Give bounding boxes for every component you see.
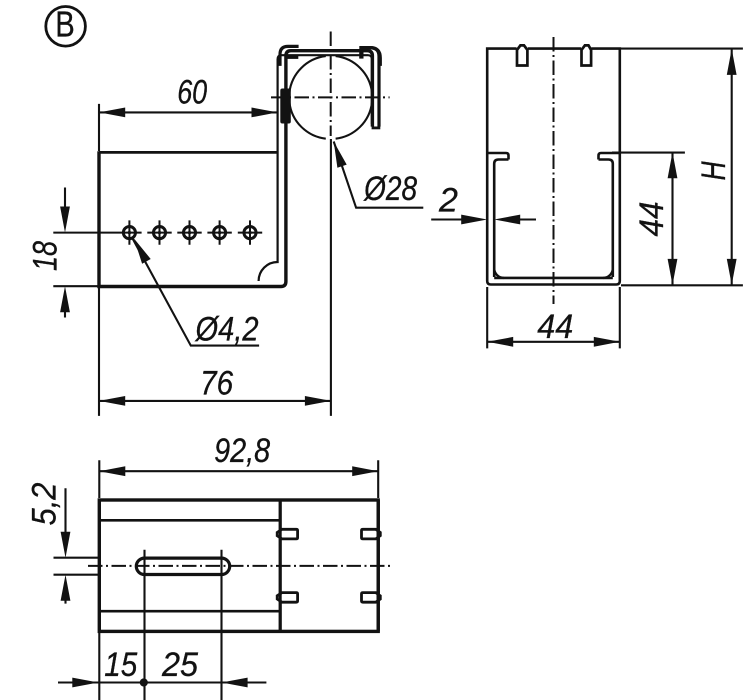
hook outer leaf left bbox=[280, 46, 299, 66]
svg-text:2: 2 bbox=[438, 182, 458, 220]
lip right outer bbox=[599, 153, 620, 160]
svg-text:76: 76 bbox=[200, 365, 233, 403]
svg-text:Ø4,2: Ø4,2 bbox=[195, 311, 259, 349]
right edge overdraw bbox=[377, 500, 380, 631]
plate top edge bbox=[99, 151, 278, 154]
svg-text:92,8: 92,8 bbox=[214, 432, 270, 470]
svg-text:5,2: 5,2 bbox=[25, 482, 63, 525]
hook outer leaf right bbox=[359, 48, 379, 127]
centerline view2 bbox=[553, 37, 555, 304]
svg-text:44: 44 bbox=[633, 202, 671, 237]
extension below tube center bbox=[330, 139, 332, 416]
tab lower-right bbox=[362, 593, 381, 603]
svg-text:15: 15 bbox=[104, 646, 137, 684]
top notch tab 1 bbox=[517, 45, 527, 65]
centerline horizontal tube bbox=[271, 96, 390, 98]
svg-text:18: 18 bbox=[26, 241, 64, 271]
clip bracket outline: plate + riser + hook top (thick) bbox=[99, 51, 372, 287]
tab upper-right bbox=[362, 529, 381, 539]
dim 44 bottom bbox=[487, 287, 620, 348]
leader D4,2 bbox=[132, 237, 259, 346]
svg-text:25: 25 bbox=[161, 646, 198, 684]
extension below rect left edge bbox=[98, 631, 100, 700]
spring tab mid-left bbox=[280, 89, 291, 124]
dim 15 and 25 bbox=[58, 681, 266, 683]
bottom view outer rectangle bbox=[99, 500, 378, 631]
inner line upper bbox=[99, 519, 280, 522]
bend fillet right bbox=[603, 268, 613, 278]
channel outer rectangle bbox=[487, 49, 620, 285]
channel inner bottom bbox=[494, 277, 613, 280]
dim H bbox=[620, 49, 743, 286]
dim 44 vertical bbox=[612, 152, 685, 285]
centerline vertical tube bbox=[330, 32, 332, 137]
svg-text:44: 44 bbox=[537, 308, 573, 346]
tab upper-left bbox=[277, 529, 297, 539]
rail thin profile bbox=[259, 55, 372, 281]
hole crosshairs bbox=[53, 220, 262, 244]
svg-text:H: H bbox=[695, 161, 733, 180]
holes D4.2 bbox=[123, 227, 256, 239]
tube circle D28 bbox=[289, 56, 372, 139]
svg-text:Ø28: Ø28 bbox=[363, 170, 417, 208]
slot obround bbox=[136, 558, 229, 574]
dim 92,8 bbox=[99, 460, 378, 498]
hole center dots bbox=[127, 230, 253, 235]
svg-text:60: 60 bbox=[177, 73, 207, 111]
divider overdraw bbox=[279, 500, 282, 631]
tab lower-left bbox=[277, 593, 297, 603]
hook tip cap bbox=[372, 127, 381, 130]
tab small left bbox=[287, 55, 298, 59]
dim 60 bbox=[99, 104, 278, 151]
top notch tab 2 bbox=[582, 45, 592, 65]
lip left inner + left wall bbox=[494, 160, 508, 278]
dim 5,2 bbox=[54, 488, 99, 603]
inner line lower bbox=[99, 610, 280, 613]
tab small right bbox=[359, 51, 363, 59]
dim 2 bbox=[431, 218, 536, 220]
hook outer leaf right thick part bbox=[362, 48, 380, 66]
lip right inner + right wall bbox=[599, 160, 613, 278]
slot extension verticals bbox=[145, 550, 222, 700]
lip left outer bbox=[487, 153, 508, 160]
bend fillet left bbox=[494, 268, 504, 278]
dim 18 bbox=[53, 188, 98, 318]
dim termination dot bbox=[140, 678, 148, 686]
centerline bottom view bbox=[88, 565, 390, 567]
divider vertical bbox=[279, 500, 282, 631]
dim 76 bbox=[99, 288, 331, 416]
svg-text:B: B bbox=[55, 4, 75, 45]
view label circle B bbox=[46, 7, 86, 47]
leader D28 bbox=[334, 142, 424, 208]
